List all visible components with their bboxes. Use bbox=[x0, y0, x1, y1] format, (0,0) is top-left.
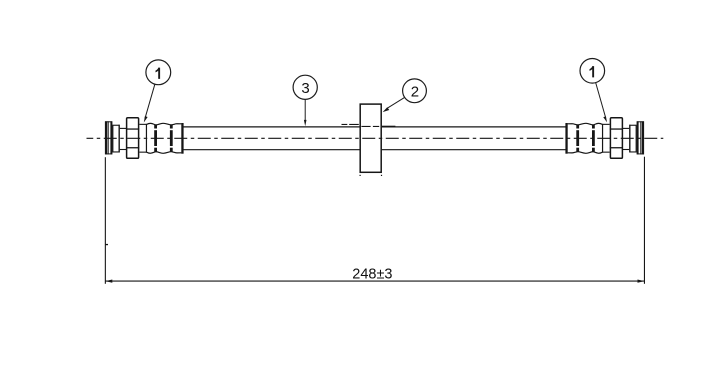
svg-text:248±3: 248±3 bbox=[352, 267, 392, 283]
svg-text:2: 2 bbox=[411, 83, 419, 100]
svg-text:3: 3 bbox=[301, 80, 309, 97]
